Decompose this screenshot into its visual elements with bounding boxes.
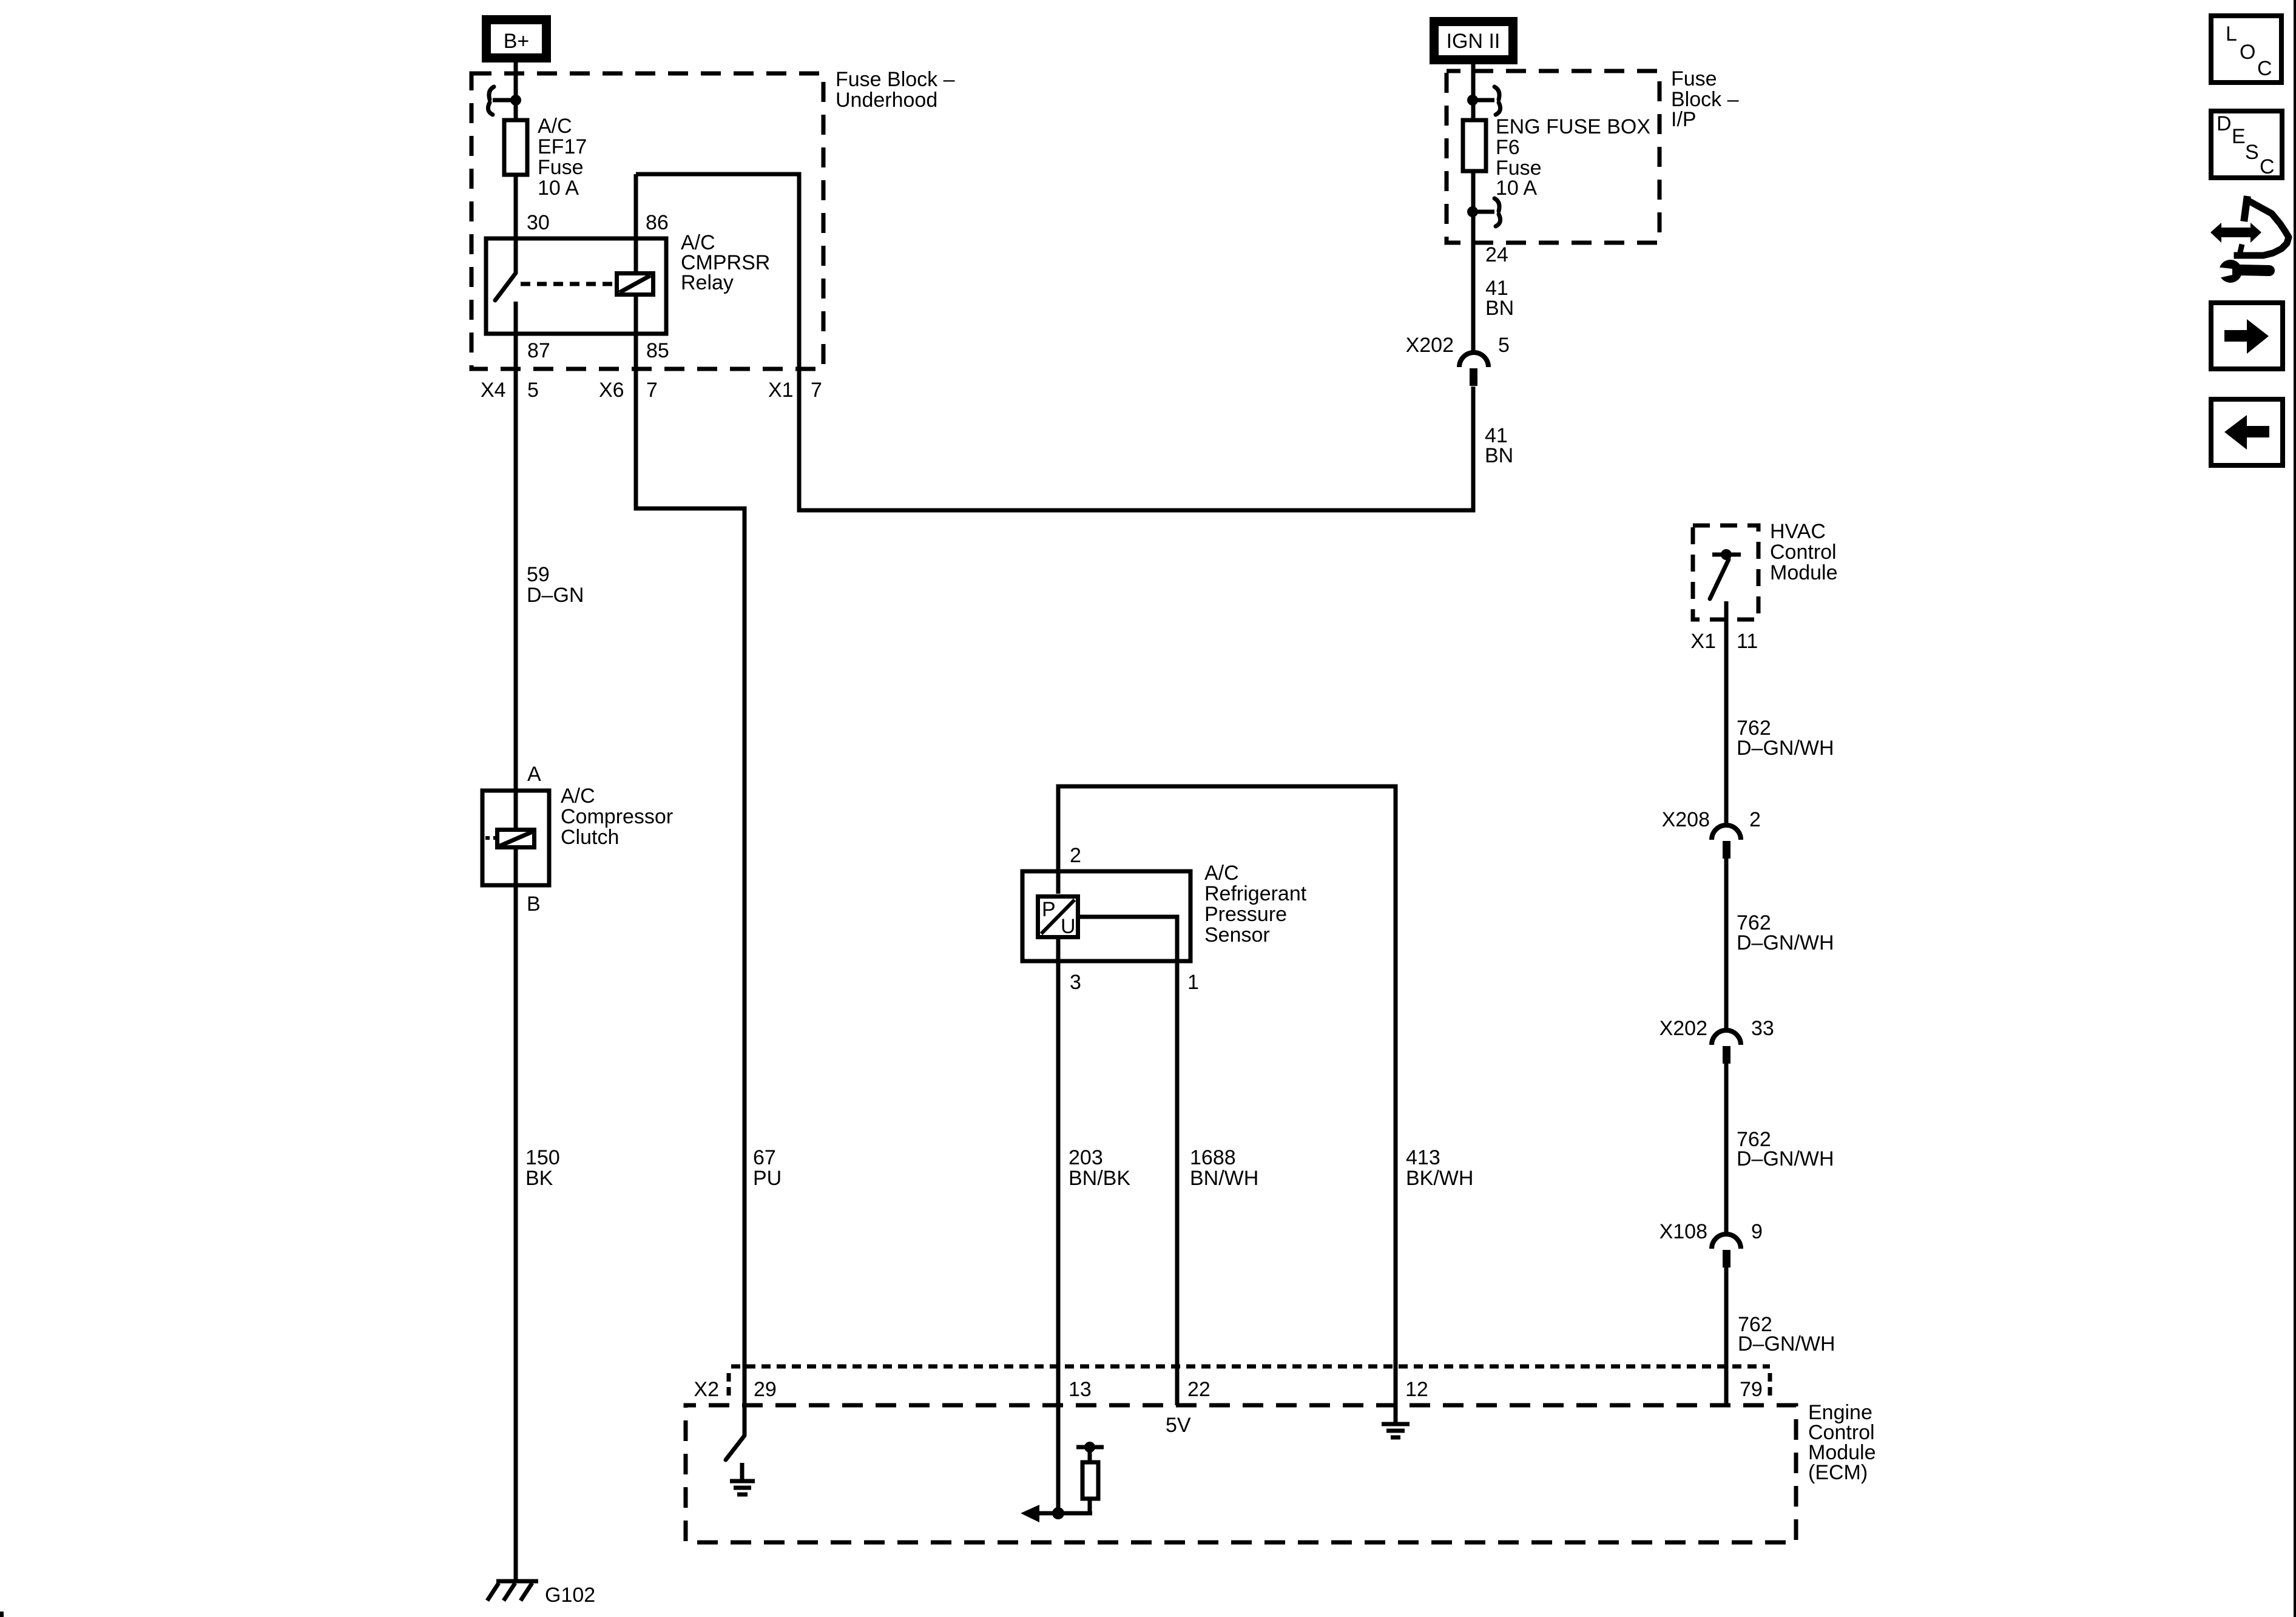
- svg-text:Sensor: Sensor: [1204, 923, 1270, 947]
- svg-text:Pressure: Pressure: [1204, 903, 1287, 926]
- svg-text:HVAC: HVAC: [1770, 520, 1826, 543]
- wire sensor pin 2 supply: top rail and left drop: [1058, 786, 1396, 1422]
- svg-text:D–GN/WH: D–GN/WH: [1737, 737, 1834, 760]
- pin 79 dotted separator: [1768, 1373, 1772, 1400]
- svg-text:85: 85: [646, 339, 669, 362]
- svg-text:D–GN/WH: D–GN/WH: [1738, 1332, 1835, 1355]
- svg-text:BN/WH: BN/WH: [1190, 1167, 1258, 1190]
- svg-text:2: 2: [1070, 844, 1081, 867]
- svg-text:87: 87: [527, 339, 550, 362]
- A/C compressor clutch box: [482, 791, 549, 885]
- relay switch blade: [495, 273, 516, 300]
- svg-text:C: C: [2257, 57, 2272, 80]
- svg-text:11: 11: [1737, 630, 1758, 653]
- svg-text:D: D: [2217, 112, 2232, 135]
- svg-text:BN: BN: [1485, 444, 1513, 467]
- icon DESC box: [2211, 111, 2282, 178]
- wire relay 87 / X4-5 / clutch pin A / 150 BK down to G102: [514, 302, 518, 1581]
- svg-text:12: 12: [1405, 1378, 1428, 1401]
- wire from fuse EF17 through relay contact 30: [514, 177, 518, 273]
- svg-text:1688: 1688: [1190, 1146, 1236, 1169]
- connector X208 pin 2 half-circle: [1712, 825, 1741, 859]
- wire relay 85 / X6-7 down then right (67 PU) to ECM pin 29: [636, 334, 745, 1435]
- svg-text:1: 1: [1187, 971, 1199, 994]
- connector X108 pin 9 half-circle: [1712, 1234, 1741, 1268]
- svg-text:I/P: I/P: [1671, 108, 1697, 131]
- svg-text:24: 24: [1485, 243, 1508, 266]
- svg-text:67: 67: [753, 1146, 776, 1169]
- page corner mark: [0, 1612, 4, 1617]
- svg-text:X202: X202: [1406, 334, 1454, 357]
- svg-text:59: 59: [527, 563, 550, 586]
- svg-text:A/C: A/C: [1204, 862, 1239, 885]
- pressure sensor P/U transducer symbol: [1038, 897, 1078, 937]
- svg-text:B: B: [527, 893, 541, 916]
- svg-text:U: U: [1061, 915, 1076, 938]
- fuse A/C EF17 10A: [504, 120, 527, 175]
- svg-text:X108: X108: [1660, 1220, 1707, 1243]
- svg-text:EF17: EF17: [538, 135, 587, 158]
- HVAC control module dashed box: [1693, 525, 1758, 619]
- svg-text:D–GN/WH: D–GN/WH: [1737, 1147, 1834, 1170]
- fuse terminal clip upper (F6): [1467, 87, 1501, 115]
- svg-text:5: 5: [1498, 334, 1510, 357]
- svg-text:BK: BK: [525, 1167, 553, 1190]
- svg-text:X202: X202: [1660, 1017, 1707, 1040]
- svg-text:Clutch: Clutch: [561, 826, 619, 849]
- fuse block underhood dashed box: [471, 73, 823, 369]
- ECM connector dotted line: [731, 1365, 1770, 1369]
- svg-text:7: 7: [646, 379, 658, 402]
- relay A/C CMPRSR box: [486, 238, 666, 334]
- wire 41 BN from X202-5 down to rail: [1471, 387, 1476, 510]
- svg-text:F6: F6: [1496, 136, 1520, 159]
- svg-text:150: 150: [525, 1146, 560, 1169]
- svg-text:ENG FUSE BOX: ENG FUSE BOX: [1496, 115, 1650, 138]
- svg-text:B+: B+: [504, 30, 530, 53]
- svg-text:O: O: [2240, 41, 2255, 64]
- ECM pin 13 junction and arrow to internal circuit: [1021, 1505, 1092, 1522]
- ECM internal resistor at pin 13: [1076, 1442, 1104, 1513]
- svg-text:30: 30: [527, 211, 550, 234]
- wire 41 BN from fuse F6 to connector X202-5: [1471, 173, 1476, 353]
- svg-text:Compressor: Compressor: [561, 805, 673, 828]
- relay actuation dashed link: [521, 282, 613, 286]
- svg-text:79: 79: [1740, 1378, 1763, 1401]
- icon forward arrow box: [2211, 303, 2283, 369]
- svg-text:3: 3: [1070, 971, 1081, 994]
- svg-text:86: 86: [646, 211, 669, 234]
- X2 dotted separator: [727, 1373, 731, 1400]
- A/C refrigerant pressure sensor box: [1022, 871, 1190, 961]
- svg-text:10 A: 10 A: [1496, 177, 1537, 200]
- svg-text:Fuse: Fuse: [538, 156, 584, 179]
- wire sensor pin 1 1688 BN/WH down to ECM pin 22 (5V): [1080, 917, 1177, 1405]
- ground G102 symbol: [487, 1581, 538, 1601]
- wire 762 D-GN/WH X108 to ECM pin 79: [1724, 1268, 1729, 1405]
- power symbol IGN II box: [1430, 17, 1518, 64]
- wire relay coil 86 branch from top rail: [634, 174, 638, 334]
- wire 762 D-GN/WH X208 to X202: [1724, 859, 1729, 1030]
- wire top rail from coil 86 to X1-7 drop: [636, 174, 1473, 510]
- wire 762 D-GN/WH X202 to X108: [1724, 1064, 1729, 1234]
- svg-text:2: 2: [1749, 808, 1761, 831]
- svg-text:203: 203: [1069, 1146, 1103, 1169]
- icon LOC box: [2211, 16, 2281, 83]
- clutch coil: [485, 830, 535, 848]
- ECM pin 29 internal switch: [726, 1436, 745, 1460]
- ECM internal ground at pin 29: [730, 1463, 755, 1494]
- svg-text:22: 22: [1187, 1378, 1210, 1401]
- svg-text:A: A: [527, 763, 541, 786]
- svg-text:5V: 5V: [1166, 1414, 1191, 1437]
- wire sensor pin 3 signal 203 BN/BK down to ECM pin 13: [1056, 939, 1061, 1513]
- wire IGN II to fuse F6: [1471, 64, 1476, 120]
- svg-text:D–GN: D–GN: [527, 584, 584, 607]
- svg-text:Relay: Relay: [681, 271, 734, 294]
- page right border: [2294, 0, 2296, 1617]
- svg-text:Control: Control: [1770, 541, 1837, 564]
- svg-text:BK/WH: BK/WH: [1406, 1167, 1473, 1190]
- svg-text:5: 5: [527, 379, 539, 402]
- HVAC switch contact and blade: [1710, 549, 1741, 599]
- svg-text:X2: X2: [694, 1378, 719, 1401]
- fuse ENG FUSE BOX F6 10A: [1463, 120, 1486, 171]
- svg-text:Refrigerant: Refrigerant: [1204, 882, 1307, 905]
- svg-text:(ECM): (ECM): [1808, 1461, 1868, 1484]
- svg-text:Module: Module: [1770, 561, 1838, 584]
- connector X202 pin 33 half-circle: [1712, 1030, 1741, 1064]
- svg-text:P: P: [1042, 898, 1056, 921]
- svg-text:7: 7: [811, 379, 822, 402]
- svg-text:E: E: [2232, 125, 2246, 148]
- icon vehicle with double arrow and wrench: [2210, 200, 2289, 283]
- svg-text:10 A: 10 A: [538, 177, 579, 200]
- svg-text:X208: X208: [1662, 808, 1710, 831]
- svg-text:413: 413: [1406, 1146, 1440, 1169]
- svg-text:A/C: A/C: [538, 115, 572, 138]
- svg-text:L: L: [2226, 22, 2237, 46]
- fuse block I/P dashed box: [1447, 71, 1660, 243]
- wire B+ feed from B+ box into fuse block: [514, 62, 518, 120]
- relay coil: [617, 274, 653, 295]
- svg-text:33: 33: [1751, 1017, 1774, 1040]
- svg-text:X1: X1: [768, 379, 794, 402]
- svg-text:Underhood: Underhood: [836, 89, 937, 112]
- ECM internal ground at pin 12: [1382, 1424, 1410, 1437]
- svg-text:D–GN/WH: D–GN/WH: [1737, 931, 1834, 954]
- svg-text:A/C: A/C: [561, 785, 595, 808]
- wire HVAC module output X1-11 down to X208: [1724, 601, 1729, 825]
- svg-text:X1: X1: [1690, 630, 1716, 653]
- svg-text:Fuse Block –: Fuse Block –: [836, 68, 955, 91]
- svg-text:S: S: [2245, 141, 2259, 164]
- svg-text:PU: PU: [753, 1167, 782, 1190]
- svg-text:C: C: [2260, 155, 2275, 178]
- svg-text:Fuse: Fuse: [1671, 67, 1717, 90]
- svg-text:X4: X4: [481, 379, 506, 402]
- svg-text:BN: BN: [1485, 297, 1514, 320]
- power symbol B+ box: [482, 15, 551, 62]
- svg-text:G102: G102: [545, 1584, 595, 1607]
- svg-text:29: 29: [754, 1378, 777, 1401]
- svg-text:13: 13: [1069, 1378, 1092, 1401]
- svg-text:IGN II: IGN II: [1447, 30, 1501, 53]
- svg-text:BN/BK: BN/BK: [1069, 1167, 1130, 1190]
- engine control module ECM dashed box: [686, 1405, 1796, 1542]
- svg-text:9: 9: [1751, 1220, 1763, 1243]
- fuse terminal clip upper left (B+): [488, 87, 521, 115]
- connector X202 pin 5 half-circle: [1459, 353, 1488, 386]
- svg-text:X6: X6: [599, 379, 624, 402]
- fuse terminal clip lower (F6): [1467, 198, 1501, 226]
- icon back arrow box: [2211, 399, 2283, 465]
